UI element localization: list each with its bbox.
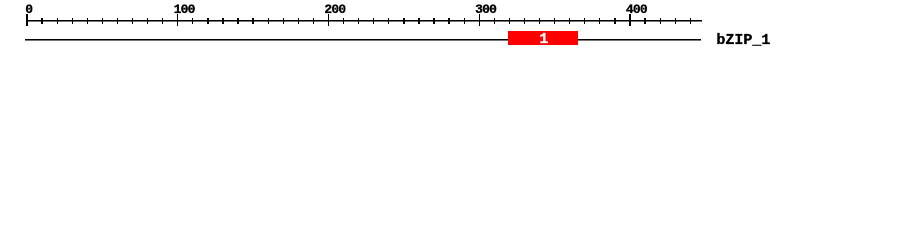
ruler minor tick 440 xyxy=(690,18,691,25)
ruler minor tick 340 xyxy=(539,18,540,25)
ruler minor tick 310 xyxy=(494,18,495,25)
ruler minor tick 80 xyxy=(147,18,148,25)
ruler major tick 400 xyxy=(629,14,630,26)
ruler minor tick 70 xyxy=(132,18,133,25)
ruler minor tick 330 xyxy=(524,18,525,25)
ruler minor tick 420 xyxy=(660,18,661,25)
ruler minor tick 110 xyxy=(192,18,193,25)
ruler label 300 xyxy=(475,5,496,15)
ruler minor tick 220 xyxy=(358,18,359,25)
ruler minor tick 10 xyxy=(41,18,42,25)
domain box 1 (bZIP_1) xyxy=(508,31,578,45)
ruler minor tick 150 xyxy=(252,18,253,25)
ruler major tick 0 xyxy=(26,14,27,26)
ruler label 0 xyxy=(25,5,32,15)
ruler minor tick 260 xyxy=(418,18,419,25)
ruler minor tick 280 xyxy=(448,18,449,25)
ruler minor tick 50 xyxy=(102,18,103,25)
ruler minor tick 320 xyxy=(509,18,510,25)
ruler minor tick 30 xyxy=(72,18,73,25)
ruler label 200 xyxy=(324,5,345,15)
ruler minor tick 360 xyxy=(569,18,570,25)
ruler minor tick 390 xyxy=(614,18,615,25)
ruler minor tick 210 xyxy=(343,18,344,25)
ruler minor tick 190 xyxy=(313,18,314,25)
ruler minor tick 370 xyxy=(584,18,585,25)
ruler minor tick 120 xyxy=(207,18,208,25)
ruler major tick 200 xyxy=(328,14,329,26)
ruler minor tick 270 xyxy=(433,18,434,25)
ruler minor tick 20 xyxy=(57,18,58,25)
ruler minor tick 290 xyxy=(464,18,465,25)
ruler minor tick 410 xyxy=(644,18,645,25)
ruler minor tick 160 xyxy=(268,18,269,25)
ruler minor tick 230 xyxy=(373,18,374,25)
ruler minor tick 240 xyxy=(388,18,389,25)
ruler minor tick 90 xyxy=(162,18,163,25)
ruler minor tick 430 xyxy=(675,18,676,25)
ruler minor tick 170 xyxy=(283,18,284,25)
label bZIP_1 xyxy=(716,35,770,46)
ruler minor tick 130 xyxy=(222,18,223,25)
ruler major tick 100 xyxy=(177,14,178,26)
ruler minor tick 40 xyxy=(87,18,88,25)
ruler major tick 300 xyxy=(479,14,480,26)
ruler line xyxy=(27,20,703,21)
ruler label 100 xyxy=(174,5,195,15)
sequence line xyxy=(25,39,701,40)
ruler label 400 xyxy=(626,5,647,15)
ruler minor tick 60 xyxy=(117,18,118,25)
ruler minor tick 250 xyxy=(403,18,404,25)
ruler minor tick 350 xyxy=(554,18,555,25)
ruler minor tick 380 xyxy=(599,18,600,25)
ruler minor tick 180 xyxy=(298,18,299,25)
domain number 1 xyxy=(509,34,579,45)
ruler minor tick 140 xyxy=(237,18,238,25)
